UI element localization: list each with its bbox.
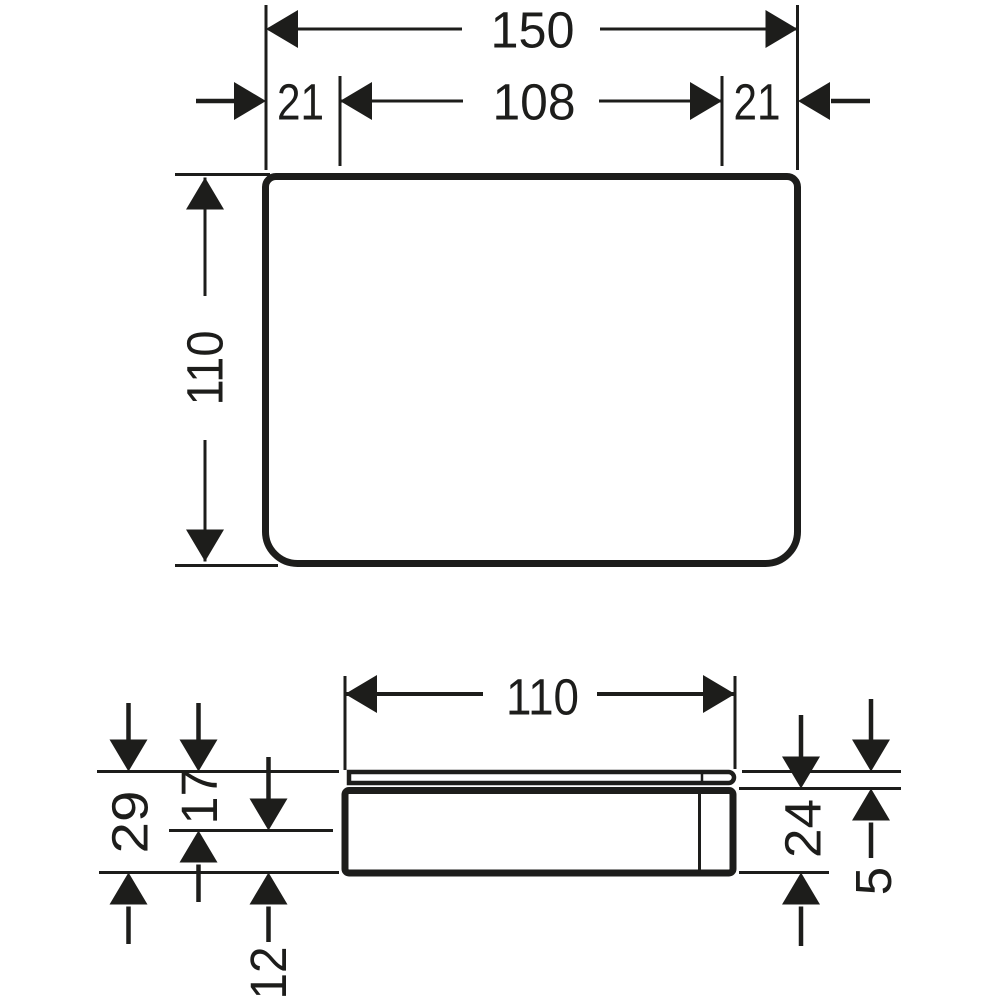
svg-text:5: 5	[845, 867, 902, 895]
svg-text:21: 21	[734, 74, 781, 131]
svg-text:17: 17	[171, 769, 228, 825]
svg-text:21: 21	[277, 74, 324, 131]
svg-text:150: 150	[491, 2, 575, 59]
svg-text:24: 24	[774, 799, 831, 858]
svg-text:12: 12	[240, 947, 297, 1000]
svg-text:110: 110	[176, 331, 233, 406]
svg-text:108: 108	[493, 74, 576, 131]
svg-text:110: 110	[506, 669, 579, 726]
svg-text:29: 29	[101, 791, 158, 854]
